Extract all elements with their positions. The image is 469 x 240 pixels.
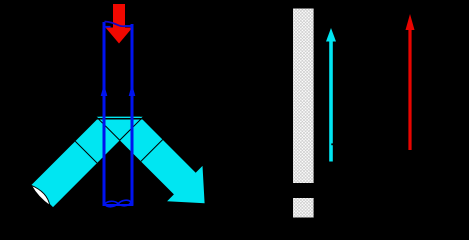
upward arrowhead on tube right line xyxy=(129,84,136,96)
incoming beam (cyan band, lower-left, with curled tail) xyxy=(31,117,143,207)
wavefront tick on outgoing beam xyxy=(141,140,163,162)
small black tick on cyan arrow shaft xyxy=(331,143,335,145)
upward arrowhead on tube left line xyxy=(101,84,108,96)
red pump arrow (downward, into tube) xyxy=(106,4,133,44)
phase-conjugate tube left line xyxy=(103,22,106,206)
beam overlap edge X (left arm) xyxy=(96,117,119,140)
tall hatched mirror bar xyxy=(293,9,314,184)
red upward arrow (right panel) xyxy=(408,28,411,150)
white curled tail of incoming beam xyxy=(31,185,50,205)
cyan upward arrow (right panel) xyxy=(329,41,333,162)
beam overlap edge X (right arm) xyxy=(120,117,143,140)
tube bottom line xyxy=(103,204,134,206)
flat wavefront tick right at tube top xyxy=(125,25,134,27)
wavefront tick on incoming beam xyxy=(75,141,97,163)
distorted wavefront curve at tube top xyxy=(105,22,125,27)
mirror surface line xyxy=(97,118,144,120)
small hatched mirror bar xyxy=(293,198,314,218)
phase-conjugate tube right line xyxy=(131,24,134,206)
outgoing beam (cyan thick arrow, lower-right) xyxy=(96,117,204,204)
aberrator loop left at tube bottom xyxy=(105,200,131,207)
flat wavefront tick left at tube top xyxy=(103,26,111,28)
